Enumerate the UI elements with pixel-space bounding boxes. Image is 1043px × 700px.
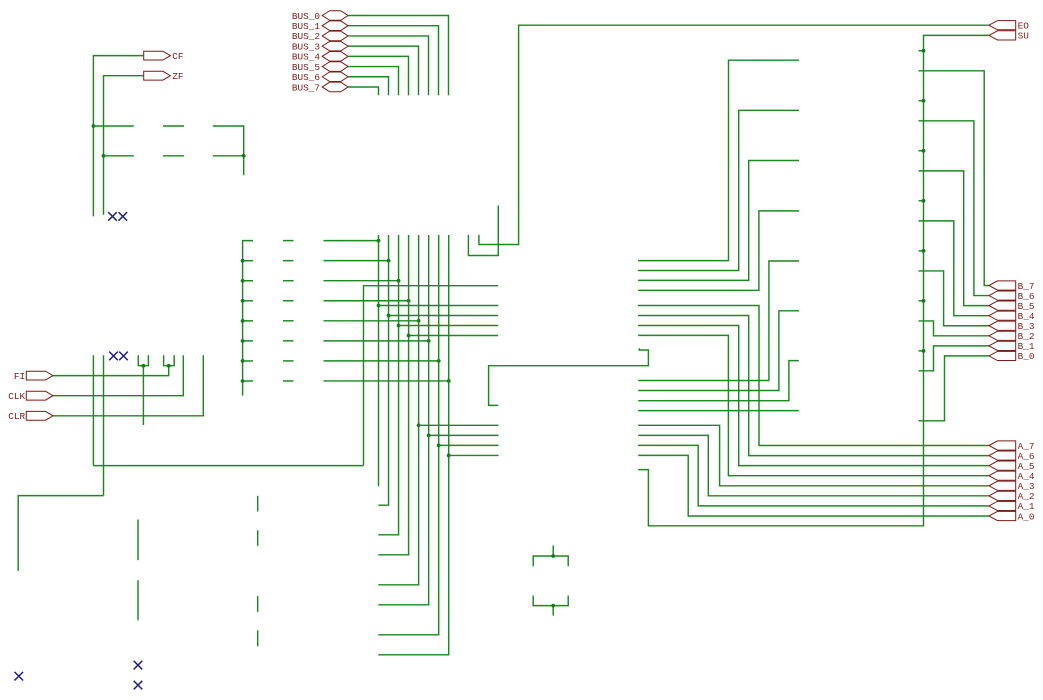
wire SU net (638, 35, 989, 525)
junction row1 (387, 259, 391, 263)
wire pin stub (919, 200, 924, 202)
wire pin stub right (243, 320, 253, 322)
junction row7 (447, 379, 451, 383)
wire row2 segment b (163, 155, 184, 157)
wire A_5 net (638, 326, 989, 466)
wire matrix vertical v6 (378, 235, 438, 635)
wire B_5 net (919, 171, 989, 306)
wire matrix vertical v2 (378, 235, 398, 535)
svg-text:SU: SU (1018, 31, 1029, 42)
wire matrix out low (439, 444, 499, 446)
hierarchical label EO (989, 21, 1016, 30)
junction row0 (377, 239, 381, 243)
hierarchical label CLR (26, 411, 53, 420)
wire left vertical b (103, 355, 105, 495)
wire bus elbow 1 (638, 60, 799, 260)
hierarchical label B_2 (989, 331, 1016, 340)
wire matrix out low (429, 434, 499, 436)
hierarchical label BUS_3 (322, 41, 348, 51)
wire row0 main (324, 240, 379, 242)
junction mid column (241, 359, 245, 363)
wire row6 main (324, 360, 439, 362)
junction matrix out low (447, 454, 451, 458)
hierarchical label B_1 (989, 341, 1016, 350)
wire CLR net (53, 355, 203, 416)
wire row5 dash (283, 340, 294, 342)
wire row2 dash (283, 280, 294, 282)
wire pin stub right (243, 260, 253, 262)
hierarchical label ZF (144, 71, 171, 80)
junction matrix out (397, 324, 401, 328)
hierarchical label BUS_5 (322, 62, 348, 72)
wire pin stub (919, 300, 924, 302)
wire pin segment (137, 580, 139, 620)
junction matrix out low (427, 433, 431, 437)
wire row6 dash (283, 360, 294, 362)
wire row5 main (324, 340, 429, 342)
wire row1 main (324, 260, 389, 262)
hierarchical label A_7 (989, 441, 1016, 450)
junction on SU vertical (922, 99, 926, 103)
wire middle elbow net (489, 348, 649, 405)
wire row3 main (324, 300, 409, 302)
hierarchical label FI (26, 371, 53, 380)
wire row2 segment a (104, 155, 134, 157)
hierarchical label A_0 (989, 511, 1016, 520)
no-connect flag (108, 212, 117, 221)
wire pin stub (919, 350, 924, 352)
wire ZF net (104, 76, 144, 215)
wire staple 1 (533, 556, 568, 566)
junction row4 (417, 319, 421, 323)
hierarchical label B_4 (989, 311, 1016, 320)
wire BUS_3 (348, 46, 418, 95)
wire BUS_0 (348, 16, 448, 96)
no-connect flag (134, 681, 143, 690)
wire pin stub right (243, 340, 253, 342)
wire row1 segment a (93, 125, 133, 127)
wire row4 main (324, 320, 419, 322)
wire row0 dash (283, 240, 294, 242)
wire pin stub right (243, 300, 253, 302)
hierarchical label A_2 (989, 491, 1016, 500)
svg-text:A_0: A_0 (1018, 511, 1035, 522)
wire left vertical a (92, 355, 94, 465)
junction on SU vertical (922, 149, 926, 153)
junction on ZF net (102, 154, 106, 158)
wire row1 dash (283, 260, 294, 262)
wire bus elbow 5 (638, 261, 799, 381)
wire pin segment (137, 520, 139, 561)
wire matrix vertical v4 (378, 235, 418, 585)
junction U-pair 2 (167, 364, 171, 368)
wire pin segment (257, 596, 259, 612)
hierarchical label A_3 (989, 481, 1016, 490)
wire pin segment (257, 496, 259, 512)
wire FI net (53, 366, 169, 376)
junction on SU vertical (922, 299, 926, 303)
wire stub near EO (468, 206, 498, 256)
wire matrix out (389, 315, 499, 317)
svg-text:CF: CF (172, 51, 183, 62)
wire matrix out (409, 335, 499, 337)
junction on CF net (92, 124, 96, 128)
wire long matrix line (364, 286, 499, 466)
wire B_6 net (919, 121, 989, 296)
wire pin stub right (243, 380, 253, 382)
svg-text:B_0: B_0 (1018, 351, 1035, 362)
junction staple 1 (551, 554, 555, 558)
junction staple 2 (551, 604, 555, 608)
no-connect flag (119, 352, 128, 361)
junction U-pair 1 (142, 364, 146, 368)
svg-text:CLK: CLK (8, 391, 25, 402)
wire row4 dash (283, 320, 294, 322)
hierarchical label A_1 (989, 501, 1016, 510)
wire pin stub right (243, 280, 253, 282)
junction mid column (241, 299, 245, 303)
wire staple 1 stub (552, 546, 554, 557)
junction matrix out (387, 314, 391, 318)
junction mid column (241, 279, 245, 283)
wire pin stub (919, 50, 924, 52)
junction row2 (242, 154, 246, 158)
hierarchical label SU (989, 31, 1016, 40)
hierarchical label BUS_4 (322, 52, 348, 62)
junction mid column (241, 259, 245, 263)
junction on SU vertical (922, 49, 926, 53)
hierarchical label A_4 (989, 471, 1016, 480)
junction matrix out low (417, 423, 421, 427)
wire row7 dash (283, 380, 294, 382)
wire CF net (93, 56, 143, 217)
wire B_7 net (919, 71, 989, 286)
wire matrix vertical v5 (378, 235, 428, 605)
hierarchical label B_5 (989, 301, 1016, 310)
junction row2 (397, 279, 401, 283)
wire A_4 net (638, 335, 989, 475)
wire pin stub (919, 100, 924, 102)
wire row1 segment b (163, 125, 184, 127)
wire row1 segment c (213, 126, 244, 175)
wire pin stub (919, 150, 924, 152)
wire pin segment (257, 630, 259, 646)
junction matrix out low (437, 444, 441, 448)
wire BUS_5 (348, 67, 398, 96)
hierarchical label B_0 (989, 351, 1016, 360)
wire row3 dash (283, 300, 294, 302)
hierarchical label CLK (26, 391, 53, 400)
wire matrix vertical v0 (378, 235, 380, 486)
junction on SU vertical (922, 199, 926, 203)
hierarchical label A_5 (989, 461, 1016, 470)
svg-text:ZF: ZF (172, 71, 183, 82)
wire B_1 net (919, 346, 989, 371)
hierarchical label B_7 (989, 281, 1016, 290)
wire matrix vertical v3 (378, 235, 408, 555)
junction matrix out (377, 304, 381, 308)
wire long horizontal to matrix (93, 465, 363, 467)
wire BUS_7 (348, 87, 378, 95)
wire EO net (479, 25, 989, 244)
no-connect flag (109, 352, 118, 361)
no-connect flag (134, 661, 143, 670)
wire CLK net (53, 355, 183, 395)
wire BUS_2 (348, 36, 428, 95)
wire row7 main (324, 380, 449, 382)
svg-text:BUS_7: BUS_7 (292, 82, 320, 93)
hierarchical label B_6 (989, 291, 1016, 300)
junction on SU vertical (922, 349, 926, 353)
wire row2 segment c (213, 155, 244, 157)
wire BUS_1 (348, 26, 438, 95)
junction matrix out (407, 334, 411, 338)
wire from U-pair 1 down (142, 366, 144, 425)
junction row3 (407, 299, 411, 303)
wire B_4 net (919, 221, 989, 316)
wire staple 2 stub (552, 606, 554, 616)
hierarchical label A_6 (989, 451, 1016, 460)
svg-text:CLR: CLR (8, 411, 25, 422)
junction mid column (241, 319, 245, 323)
hierarchical label BUS_6 (322, 72, 348, 82)
hierarchical label BUS_0 (322, 11, 348, 21)
wire staple 2 (533, 596, 568, 606)
junction mid column (241, 379, 245, 383)
hierarchical label BUS_2 (322, 31, 348, 41)
wire pin segment (257, 530, 259, 546)
junction on SU vertical (922, 249, 926, 253)
wire B_3 net (919, 271, 989, 326)
wire A_3 net (638, 425, 989, 486)
wire B_2 net (919, 321, 989, 336)
wire A_7 net (638, 306, 989, 446)
wire A_6 net (638, 316, 989, 456)
wire A_0 net (638, 455, 989, 516)
junction row5 (427, 339, 431, 343)
svg-text:FI: FI (14, 371, 25, 382)
wire matrix out (399, 325, 499, 327)
wire BUS_4 (348, 56, 408, 95)
wire matrix out low (449, 454, 499, 456)
hierarchical label BUS_1 (322, 21, 348, 31)
wire bus elbow 8 (638, 410, 799, 412)
hierarchical label B_3 (989, 321, 1016, 330)
wire pin U-pair 2 (164, 355, 175, 365)
hierarchical label BUS_7 (322, 82, 348, 92)
wire bus elbow 2 (638, 110, 799, 270)
wire pin U-pair 1 (138, 355, 148, 365)
junction mid column (241, 339, 245, 343)
junction row6 (437, 359, 441, 363)
wire bus elbow 4 (638, 211, 799, 290)
wire pin stub (919, 250, 924, 252)
wire mid column (243, 241, 253, 396)
hierarchical label CF (144, 51, 171, 60)
wire bus elbow 6 (638, 311, 799, 391)
no-connect flag (15, 672, 24, 681)
wire BUS_6 (348, 77, 388, 95)
wire A_1 net (638, 445, 989, 506)
wire matrix vertical v1 (378, 235, 388, 505)
wire bus elbow 3 (638, 161, 799, 281)
no-connect flag (119, 212, 128, 221)
wire bus elbow 7 (638, 361, 799, 401)
wire matrix out (379, 305, 499, 307)
wire row2 main (324, 280, 399, 282)
wire matrix out low (419, 424, 499, 426)
wire A_2 net (638, 435, 989, 495)
wire matrix vertical v7 (378, 235, 448, 655)
wire bottom-left elbow (18, 496, 103, 571)
wire pin stub right (243, 360, 253, 362)
wire B_0 net (919, 356, 989, 421)
